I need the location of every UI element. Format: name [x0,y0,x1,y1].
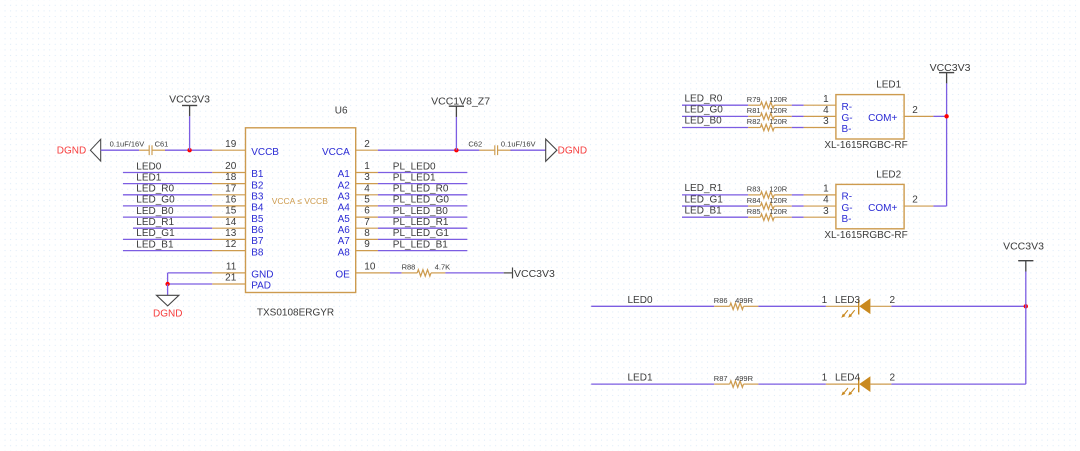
svg-text:VCC3V3: VCC3V3 [169,93,210,105]
wire [682,115,748,117]
svg-text:VCCA: VCCA [322,147,350,158]
svg-text:15: 15 [225,206,237,217]
wire [758,305,826,307]
svg-text:4: 4 [823,105,829,116]
svg-text:2: 2 [364,139,370,150]
svg-text:B6: B6 [251,225,264,236]
svg-text:PL_LED_B1: PL_LED_B1 [393,239,448,250]
svg-text:DGND: DGND [57,146,86,157]
wire [123,216,212,218]
svg-text:11: 11 [226,262,237,273]
wire [123,194,212,196]
svg-text:R83: R83 [747,185,761,194]
wire [792,127,804,129]
wire [378,172,467,174]
svg-text:1: 1 [823,94,829,105]
wire [123,205,212,207]
svg-text:8: 8 [364,228,370,239]
svg-text:R85: R85 [747,207,761,216]
svg-text:A2: A2 [338,180,351,191]
LED module LED1 [804,95,934,139]
svg-text:0.1uF/16V: 0.1uF/16V [501,140,536,149]
svg-text:VCC3V3: VCC3V3 [514,268,555,280]
svg-text:LED0: LED0 [136,161,161,172]
svg-text:LED_G1: LED_G1 [685,194,724,205]
junction [187,148,191,152]
svg-text:18: 18 [225,172,237,183]
svg-text:R84: R84 [747,196,761,205]
wire [123,172,212,174]
wire [101,149,140,151]
svg-text:B-: B- [842,214,852,225]
resistor R81 [748,113,792,119]
svg-text:5: 5 [364,195,370,206]
svg-text:4.7K: 4.7K [435,263,450,272]
svg-text:120R: 120R [769,207,788,216]
svg-text:PL_LED0: PL_LED0 [393,161,436,172]
wire [591,305,714,307]
svg-text:LED_B0: LED_B0 [136,206,174,217]
svg-text:4: 4 [823,195,829,206]
svg-text:2: 2 [912,195,918,206]
svg-text:LED0: LED0 [628,295,653,306]
wire [378,250,467,252]
LED LED4 [826,377,892,396]
resistor R83 [748,192,792,198]
svg-text:14: 14 [225,217,237,228]
svg-text:OE: OE [335,270,350,281]
svg-text:1: 1 [822,373,828,384]
svg-text:2: 2 [890,295,896,306]
wire [946,83,948,206]
svg-text:TXS0108ERGYR: TXS0108ERGYR [257,307,334,318]
svg-text:PL_LED_R1: PL_LED_R1 [393,217,449,228]
ground DGND [57,139,101,161]
wire [682,216,748,218]
resistor R82 [748,124,792,130]
ground DGND [546,139,587,161]
svg-text:20: 20 [225,161,237,172]
svg-text:499R: 499R [735,296,754,305]
wire [682,127,748,129]
svg-text:U6: U6 [335,106,348,117]
svg-text:PL_LED_B0: PL_LED_B0 [393,206,448,217]
svg-text:LED_R1: LED_R1 [136,217,174,228]
svg-text:DGND: DGND [153,309,182,320]
svg-text:LED1: LED1 [876,80,901,91]
svg-text:2: 2 [912,105,918,116]
svg-text:3: 3 [364,172,370,183]
svg-text:3: 3 [823,206,829,217]
wire [445,272,503,274]
svg-text:DGND: DGND [558,145,587,156]
junction [1024,304,1028,308]
wire [891,305,1025,307]
svg-text:4: 4 [364,183,370,194]
svg-text:R81: R81 [747,106,761,115]
svg-text:XL-1615RGBC-RF: XL-1615RGBC-RF [824,230,907,241]
wire [133,227,212,229]
wire [792,115,804,117]
resistor R88 [402,270,446,276]
power flag VCC3V3 [1003,241,1044,272]
svg-text:PAD: PAD [251,281,271,292]
wire [378,205,467,207]
IC U6 [212,128,390,293]
svg-text:LED_R0: LED_R0 [136,184,174,195]
wire [378,227,467,229]
svg-text:17: 17 [225,183,237,194]
svg-text:COM+: COM+ [868,113,897,124]
svg-text:C62: C62 [468,140,482,149]
svg-text:10: 10 [364,262,376,273]
wire [510,149,545,151]
LED LED3 [826,299,892,318]
wire [378,194,467,196]
wire [792,205,804,207]
capacitor C61 [139,145,166,155]
svg-text:VCCB: VCCB [251,147,279,158]
resistor R85 [748,214,792,220]
svg-text:LED4: LED4 [835,373,860,384]
svg-text:120R: 120R [769,196,788,205]
svg-text:LED2: LED2 [876,170,901,181]
wire [891,383,1025,385]
svg-text:2: 2 [890,373,896,384]
svg-text:LED_R1: LED_R1 [685,183,723,194]
svg-text:120R: 120R [769,185,788,194]
wire [682,194,748,196]
resistor R79 [748,102,792,108]
svg-text:LED_G0: LED_G0 [685,105,724,116]
resistor R87 [714,381,758,387]
svg-text:A6: A6 [338,225,351,236]
junction [944,114,948,118]
junction [454,148,458,152]
svg-text:B7: B7 [251,236,264,247]
wire [378,149,480,151]
svg-text:G-: G- [842,203,853,214]
svg-text:LED_B1: LED_B1 [685,205,723,216]
svg-text:9: 9 [364,239,370,250]
wire [591,383,714,385]
svg-text:19: 19 [225,139,237,150]
svg-text:R82: R82 [747,117,761,126]
svg-text:R79: R79 [747,95,761,104]
svg-text:R87: R87 [714,374,728,383]
svg-text:3: 3 [823,116,829,127]
resistor R86 [714,303,758,309]
wire [167,273,169,284]
svg-text:21: 21 [225,273,237,284]
capacitor C62 [479,145,512,155]
wire [792,104,804,106]
svg-text:VCCA ≤ VCCB: VCCA ≤ VCCB [272,196,328,206]
svg-text:PL_LED_G0: PL_LED_G0 [393,195,450,206]
junction [165,282,169,286]
svg-text:B4: B4 [251,203,264,214]
svg-text:LED3: LED3 [835,295,860,306]
wire [933,115,946,117]
wire [123,183,212,185]
svg-text:GND: GND [251,270,273,281]
svg-text:PL_LED_R0: PL_LED_R0 [393,184,449,195]
wire [189,116,191,150]
wire [792,194,804,196]
wire [758,383,826,385]
power flag VCC3V3 [169,93,210,116]
svg-text:120R: 120R [769,106,788,115]
svg-text:B1: B1 [251,169,264,180]
svg-text:499R: 499R [735,374,754,383]
svg-text:LED_G0: LED_G0 [136,195,175,206]
svg-text:120R: 120R [769,117,788,126]
svg-text:LED1: LED1 [628,373,653,384]
net label VCC3V3 [504,268,555,280]
svg-text:PL_LED1: PL_LED1 [393,172,436,183]
svg-text:A7: A7 [338,236,351,247]
svg-text:LED_G1: LED_G1 [136,228,175,239]
wire [168,283,213,285]
svg-text:B-: B- [842,124,852,135]
svg-text:A1: A1 [338,169,351,180]
svg-text:B2: B2 [251,180,264,191]
wire [682,104,748,106]
svg-text:A5: A5 [338,214,351,225]
svg-text:LED_B1: LED_B1 [136,239,174,250]
wire [167,284,169,295]
power flag VCC1V8_Z7 [431,96,490,118]
svg-text:C61: C61 [155,140,169,149]
svg-text:LED1: LED1 [136,172,161,183]
svg-text:120R: 120R [769,95,788,104]
wire [792,216,804,218]
svg-text:7: 7 [364,217,370,228]
svg-text:B3: B3 [251,192,264,203]
svg-text:PL_LED_G1: PL_LED_G1 [393,228,450,239]
svg-text:A4: A4 [338,203,351,214]
svg-text:COM+: COM+ [868,203,897,214]
svg-text:16: 16 [225,195,237,206]
svg-text:1: 1 [823,184,829,195]
svg-text:G-: G- [842,113,853,124]
power flag VCC3V3 [930,62,971,83]
svg-text:0.1uF/16V: 0.1uF/16V [110,140,145,149]
svg-text:XL-1615RGBC-RF: XL-1615RGBC-RF [824,140,907,151]
svg-text:6: 6 [364,206,370,217]
wire [165,149,212,151]
svg-text:VCC3V3: VCC3V3 [1003,241,1044,253]
svg-text:A3: A3 [338,192,351,203]
svg-text:B8: B8 [251,247,264,258]
wire [123,250,212,252]
wire [682,205,748,207]
resistor R84 [748,203,792,209]
wire [378,183,467,185]
svg-text:B5: B5 [251,214,264,225]
wire [378,238,467,240]
wire [933,205,946,207]
svg-text:R86: R86 [714,296,728,305]
svg-text:12: 12 [225,239,237,250]
wire [1025,272,1027,385]
svg-text:A8: A8 [338,247,351,258]
LED module LED2 [804,184,934,228]
svg-text:LED_R0: LED_R0 [685,93,723,104]
wire [455,117,457,150]
svg-text:1: 1 [822,295,828,306]
svg-text:13: 13 [225,228,237,239]
svg-text:LED_B0: LED_B0 [685,116,723,127]
svg-text:R88: R88 [402,263,416,272]
svg-text:R-: R- [842,192,853,203]
wire [378,216,467,218]
svg-text:R-: R- [842,102,853,113]
wire [123,238,212,240]
wire [390,272,402,274]
wire [168,272,213,274]
ground DGND [153,295,182,319]
svg-text:1: 1 [364,161,370,172]
